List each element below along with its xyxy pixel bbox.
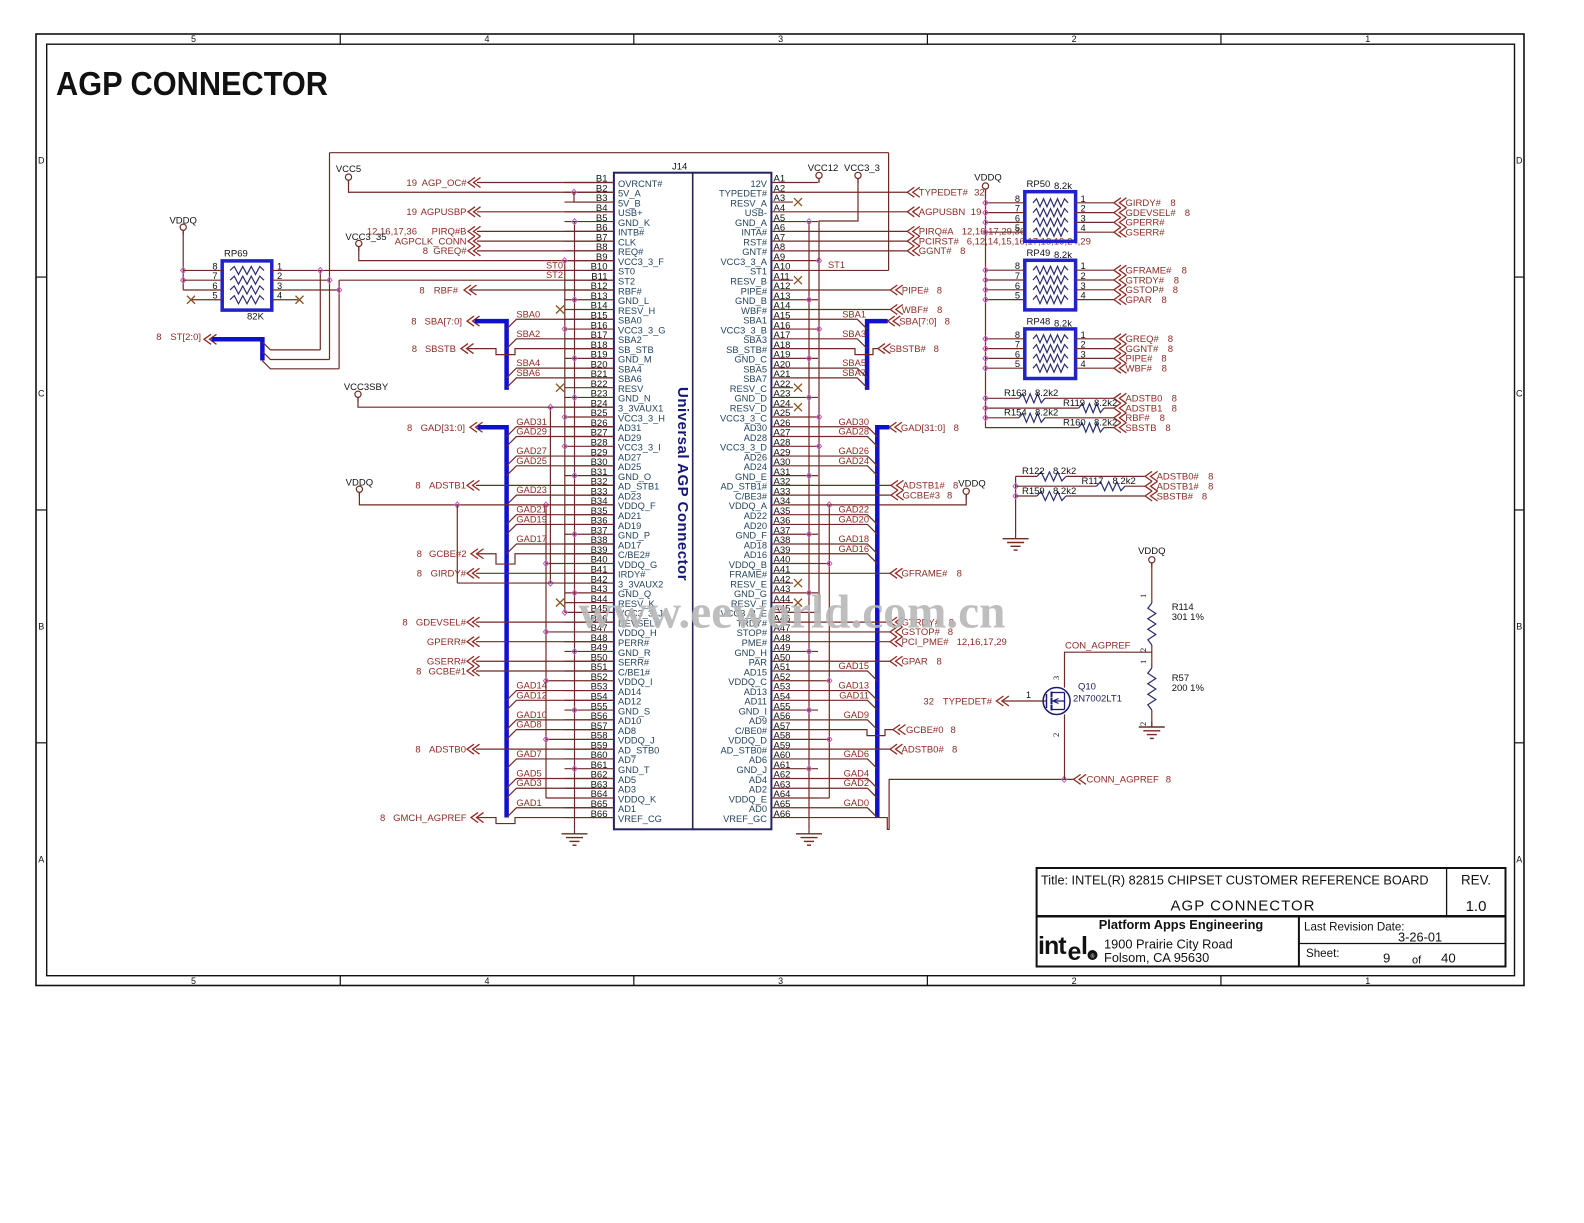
svg-text:4: 4	[485, 976, 490, 986]
wire VDDQ tap B40	[546, 563, 565, 565]
svg-text:1: 1	[1026, 690, 1031, 700]
svg-text:ADSTB0#: ADSTB0#	[902, 744, 945, 755]
svg-text:32: 32	[923, 697, 934, 708]
rail VCC3_3 right	[818, 261, 820, 613]
pin B55 GND_S	[565, 709, 614, 711]
svg-text:C: C	[1516, 389, 1523, 399]
pin B36 AD19	[565, 523, 614, 525]
svg-text:VDDQ: VDDQ	[1138, 546, 1165, 557]
bus entry GAD10	[507, 720, 614, 730]
pin B32 AD_STB1	[565, 484, 614, 486]
svg-text:SBA5: SBA5	[842, 358, 866, 368]
ground	[808, 829, 810, 834]
svg-text:OVRCNT#: OVRCNT#	[618, 179, 663, 189]
bus entry GAD15	[818, 671, 877, 681]
net label WBF# right	[890, 305, 903, 315]
junction VDDQ branch	[455, 502, 460, 508]
bus ST[2:0]	[212, 339, 263, 360]
svg-text:2: 2	[1081, 271, 1086, 281]
pin A18 SB_STB#	[771, 348, 818, 350]
pin B14 RESV_H	[565, 309, 614, 311]
svg-text:SBA[7:0]: SBA[7:0]	[425, 316, 463, 327]
pin A28 VCC3_3_D	[771, 445, 818, 447]
svg-text:RESV_D: RESV_D	[730, 404, 767, 414]
svg-text:SBSTB: SBSTB	[1125, 423, 1156, 434]
svg-text:VDDQ_K: VDDQ_K	[618, 794, 657, 804]
svg-text:GAD3: GAD3	[516, 778, 541, 788]
junction VDDQ A40	[818, 563, 829, 565]
wire VCC12 to A1	[818, 179, 820, 183]
svg-text:GAD18: GAD18	[839, 534, 870, 544]
pin B30 AD25	[565, 465, 614, 467]
bus entry SBA4	[507, 368, 614, 378]
rail VCC3_3 left	[564, 261, 566, 613]
pin B27 AD29	[565, 436, 614, 438]
svg-text:VDDQ_I: VDDQ_I	[618, 677, 653, 687]
title block	[1037, 868, 1506, 967]
junction VCC3_3 A25	[818, 416, 820, 418]
wire AGPUSBP to B4	[477, 211, 614, 213]
power VCC5	[345, 174, 351, 180]
svg-text:AGP_OC#: AGP_OC#	[422, 178, 468, 189]
bus entry GAD21	[507, 515, 614, 525]
wire gate Q10	[1003, 700, 1046, 702]
pin B11 ST2	[565, 279, 614, 281]
svg-text:GCBE#3: GCBE#3	[903, 490, 941, 501]
resistor R154 8.2k2	[986, 417, 1020, 419]
svg-text:8: 8	[407, 423, 412, 434]
svg-text:AD13: AD13	[744, 687, 767, 697]
RP48 resistor 3	[1033, 354, 1068, 362]
bus entry GAD31	[507, 427, 614, 437]
bus entry SBA6	[507, 378, 614, 388]
junction GND B13	[572, 297, 577, 303]
svg-text:8.2k: 8.2k	[1054, 181, 1072, 192]
net label GFRAME# right	[890, 568, 903, 578]
bus entry ST1	[262, 352, 329, 360]
svg-text:VDDQ: VDDQ	[169, 216, 196, 227]
svg-text:WBF#: WBF#	[1126, 364, 1153, 375]
svg-text:SBA7: SBA7	[842, 368, 866, 378]
bus entry GAD14	[507, 691, 614, 701]
svg-text:8.2k2: 8.2k2	[1094, 417, 1117, 428]
pin A24 RESV_D	[771, 406, 793, 408]
svg-text:VCC3_3_F: VCC3_3_F	[618, 257, 664, 267]
RP50 resistor 3	[1033, 218, 1068, 226]
svg-text:GAD12: GAD12	[516, 690, 547, 700]
pin B19 GND_M	[565, 357, 614, 359]
pin A47 STOP#	[771, 631, 818, 633]
pin B52 VDDQ_I	[565, 680, 614, 682]
svg-text:8: 8	[1160, 413, 1165, 424]
svg-text:RESV_C: RESV_C	[730, 384, 767, 394]
svg-text:CLK: CLK	[618, 237, 637, 247]
pin B17 SBA2	[565, 338, 614, 340]
pin A54 AD11	[771, 699, 818, 701]
bus entry GAD22	[818, 515, 877, 525]
pin A7 RST#	[771, 240, 818, 242]
svg-text:CON_AGPREF: CON_AGPREF	[1065, 641, 1131, 652]
svg-text:AD11: AD11	[744, 697, 767, 707]
ground	[1151, 723, 1153, 728]
pin B53 AD14	[565, 690, 614, 692]
svg-text:SBA1: SBA1	[842, 309, 866, 319]
resistor R114 301 1%	[1148, 603, 1156, 645]
wire VCC5 to B2 B3	[349, 180, 614, 192]
svg-text:SBSTB#: SBSTB#	[889, 344, 926, 355]
junction VCC3_35 rail	[562, 258, 567, 264]
bus entry GAD7	[507, 759, 614, 769]
svg-text:8: 8	[937, 305, 942, 316]
svg-text:SBA3: SBA3	[743, 335, 767, 345]
net label ADSTB1#	[1145, 481, 1158, 491]
pin B42 3_3VAUX2	[565, 582, 614, 584]
svg-text:8: 8	[1172, 403, 1177, 414]
svg-text:ST2: ST2	[546, 270, 563, 280]
svg-text:4: 4	[1081, 223, 1086, 233]
pin A5 GND_A	[771, 221, 818, 223]
svg-text:8: 8	[419, 285, 424, 296]
svg-text:AD23: AD23	[618, 491, 641, 501]
svg-text:Platform Apps Engineering: Platform Apps Engineering	[1099, 917, 1263, 932]
svg-text:SBA2: SBA2	[618, 335, 642, 345]
svg-text:GREQ#: GREQ#	[433, 246, 467, 257]
bus entry GAD25	[507, 466, 614, 476]
svg-text:RESV_B: RESV_B	[730, 277, 767, 287]
svg-text:R117: R117	[1082, 476, 1104, 487]
svg-text:8.2k: 8.2k	[1054, 250, 1072, 261]
svg-text:6: 6	[1015, 213, 1020, 223]
svg-text:AD_STB0#: AD_STB0#	[720, 745, 767, 755]
svg-text:REQ#: REQ#	[618, 247, 644, 257]
svg-text:®: ®	[1090, 953, 1095, 960]
junction VCC3 B25	[562, 414, 567, 420]
pin B16 VCC3_3_G	[565, 328, 614, 330]
svg-text:1: 1	[1081, 330, 1086, 340]
pin A50 PAR	[771, 660, 818, 662]
pin A53 AD13	[771, 690, 818, 692]
rail 3_3VAUX left	[549, 407, 551, 583]
svg-text:GAD19: GAD19	[516, 514, 547, 524]
svg-text:8.2k: 8.2k	[1054, 318, 1072, 329]
net label GGNT#	[1114, 344, 1127, 354]
wire ST1 to A10	[818, 269, 889, 271]
junction VDDQ A34	[827, 502, 832, 508]
junction VCC3 B45	[562, 609, 567, 615]
wire RP69.3	[272, 289, 339, 291]
bus entry GAD13	[818, 691, 877, 701]
svg-text:l: l	[1081, 932, 1088, 960]
svg-text:ST1: ST1	[828, 260, 845, 270]
pin A12 PIPE#	[771, 289, 818, 291]
RP50 resistor 4	[1033, 228, 1068, 236]
bus entry SBA2	[507, 339, 614, 349]
svg-text:1: 1	[1365, 976, 1370, 986]
rail VDDQ pullup	[985, 189, 987, 428]
junction VCC3_3 A28	[818, 445, 820, 447]
svg-text:82K: 82K	[247, 312, 265, 323]
svg-text:VCC3_3_A: VCC3_3_A	[720, 257, 767, 267]
net label GSERR#	[1114, 227, 1127, 237]
pin B62 AD5	[565, 777, 614, 779]
pin A44 RESV_F	[771, 602, 793, 604]
pin A32 AD_STB1#	[771, 484, 818, 486]
svg-text:GAD20: GAD20	[839, 514, 870, 524]
svg-text:GAD16: GAD16	[839, 544, 870, 554]
pin A21 SBA7	[771, 377, 818, 379]
svg-text:B: B	[38, 621, 44, 631]
power VDDQ	[356, 486, 362, 492]
svg-text:PAR: PAR	[749, 658, 768, 668]
svg-text:VCC3_3_D: VCC3_3_D	[720, 443, 767, 453]
wire PIRQ#B to B6	[477, 230, 614, 232]
junction GND B23	[572, 394, 577, 400]
svg-text:8: 8	[1182, 266, 1187, 277]
svg-text:C: C	[38, 389, 45, 399]
net label ADSTB1	[1114, 403, 1127, 413]
pin B35 AD21	[565, 514, 614, 516]
svg-text:D: D	[1516, 156, 1523, 166]
wire VDDQ to A34 row	[818, 494, 966, 505]
pin A58 VDDQ_D	[771, 738, 818, 740]
svg-text:R122: R122	[1022, 466, 1045, 477]
pin A43 GND_G	[771, 592, 818, 594]
svg-text:3: 3	[1081, 281, 1086, 291]
svg-text:GAD8: GAD8	[516, 720, 541, 730]
svg-text:VDDQ_J: VDDQ_J	[618, 736, 655, 746]
pin B63 AD3	[565, 787, 614, 789]
pin B39 C/BE2#	[565, 553, 614, 555]
pin B66 VREF_CG	[565, 817, 614, 819]
junction VDDQ B34	[543, 502, 548, 508]
svg-text:D: D	[38, 156, 45, 166]
pin B33 AD23	[565, 494, 614, 496]
svg-text:2: 2	[1051, 733, 1061, 737]
svg-text:3: 3	[778, 976, 783, 986]
pin B7 CLK	[565, 240, 614, 242]
resistor R160 8.2k2	[986, 427, 1079, 429]
svg-text:5: 5	[1015, 291, 1020, 301]
wire GCBE#2 to B39 with dodge	[478, 554, 614, 564]
bus entry GAD20	[818, 524, 877, 534]
bus entry GAD17	[507, 544, 614, 554]
rail GND right	[808, 222, 810, 830]
svg-text:GFRAME#: GFRAME#	[902, 569, 949, 580]
svg-text:9: 9	[1383, 951, 1390, 966]
svg-text:AD8: AD8	[618, 726, 636, 736]
svg-text:IRDY#: IRDY#	[618, 570, 646, 580]
svg-text:8: 8	[953, 481, 958, 492]
svg-text:3: 3	[1081, 213, 1086, 223]
wire PCI_PME# from A48	[818, 641, 890, 643]
wire ST1 top loop	[330, 152, 889, 154]
svg-text:GND_K: GND_K	[618, 218, 651, 228]
svg-text:A: A	[38, 854, 44, 864]
svg-text:RP48: RP48	[1027, 316, 1051, 327]
svg-text:8: 8	[951, 725, 956, 736]
svg-text:AD0: AD0	[749, 804, 767, 814]
svg-text:VDDQ: VDDQ	[958, 479, 985, 490]
svg-text:ST1: ST1	[750, 267, 767, 277]
pin B28 VCC3_3_I	[565, 445, 614, 447]
pin A38 AD18	[771, 543, 818, 545]
svg-text:8: 8	[1202, 491, 1207, 502]
svg-text:8.2k2: 8.2k2	[1094, 398, 1117, 409]
power VDDQ	[180, 224, 186, 230]
svg-text:VDDQ: VDDQ	[346, 478, 373, 489]
svg-text:ADSTB1: ADSTB1	[429, 481, 466, 492]
junction GND A19	[806, 355, 811, 361]
RP48 resistor 4	[1033, 364, 1068, 372]
junction GND B37	[572, 531, 577, 537]
svg-text:C/BE3#: C/BE3#	[735, 491, 768, 501]
svg-text:200 1%: 200 1%	[1172, 683, 1205, 694]
svg-text:Title: INTEL(R) 82815 CHIPSET: Title: INTEL(R) 82815 CHIPSET CUSTOMER R…	[1041, 874, 1429, 888]
svg-text:GAD4: GAD4	[844, 768, 869, 778]
pin B60 AD7	[565, 758, 614, 760]
resistor pack RP48	[1025, 329, 1076, 379]
svg-text:R160: R160	[1063, 417, 1086, 428]
svg-text:6: 6	[212, 281, 217, 291]
pin A2 TYPEDET#	[771, 191, 818, 193]
pin B34 VDDQ_F	[565, 504, 614, 506]
bus entry GAD5	[507, 778, 614, 788]
resistor R119 8.2k2	[986, 407, 1079, 409]
svg-text:GAD11: GAD11	[839, 690, 869, 700]
svg-text:C/BE2#: C/BE2#	[618, 550, 651, 560]
svg-text:8: 8	[1173, 285, 1178, 296]
svg-text:RBF#: RBF#	[618, 286, 643, 296]
pin A52 VDDQ_C	[771, 680, 818, 682]
svg-text:8.2k2: 8.2k2	[1035, 408, 1058, 419]
wire PIPE# from A12	[818, 289, 890, 291]
svg-text:GAD22: GAD22	[839, 505, 870, 515]
junction GND B19	[572, 355, 577, 361]
bus entry SBA5	[818, 368, 867, 378]
wire GPAR from A50	[818, 660, 890, 662]
svg-text:WBF#: WBF#	[741, 306, 768, 316]
svg-text:GND_H: GND_H	[734, 648, 767, 658]
bus entry GAD9	[818, 720, 877, 730]
pin A49 GND_H	[771, 650, 818, 652]
svg-text:VDDQ_A: VDDQ_A	[729, 501, 768, 511]
pin B25 VCC3_3_H	[565, 416, 614, 418]
svg-text:RP69: RP69	[224, 249, 248, 260]
svg-text:7: 7	[212, 271, 217, 281]
svg-text:AD20: AD20	[744, 521, 767, 531]
svg-text:SBA6: SBA6	[516, 368, 540, 378]
svg-text:GND_T: GND_T	[618, 765, 650, 775]
svg-text:8: 8	[952, 744, 957, 755]
svg-text:AD29: AD29	[618, 433, 641, 443]
svg-text:VDDQ_C: VDDQ_C	[728, 677, 767, 687]
pin B1 OVRCNT#	[565, 182, 614, 184]
RP50 resistor 2	[1033, 209, 1068, 217]
svg-text:GND_F: GND_F	[735, 531, 767, 541]
svg-text:AD26: AD26	[744, 452, 767, 462]
wire GTRDY# from A46	[818, 621, 890, 623]
rail VDDQ left	[545, 505, 547, 798]
svg-text:GAD5: GAD5	[516, 768, 541, 778]
svg-text:Folsom, CA 95630: Folsom, CA 95630	[1104, 950, 1209, 965]
svg-text:GAD27: GAD27	[516, 446, 547, 456]
pin A46 TRDY#	[771, 621, 818, 623]
net label GPERR#	[1114, 217, 1127, 227]
wire ST2 seg to B11	[339, 279, 614, 281]
bus entry GAD0	[818, 808, 877, 818]
pin B10 ST0	[565, 269, 614, 271]
svg-text:AGP CONNECTOR: AGP CONNECTOR	[1171, 898, 1316, 915]
svg-text:AD17: AD17	[618, 540, 641, 550]
svg-text:VREF_GC: VREF_GC	[723, 814, 767, 824]
svg-text:5V_A: 5V_A	[618, 189, 642, 199]
net label GSTOP# right	[890, 627, 903, 637]
junction VDDQ A64	[818, 797, 829, 799]
svg-text:AD21: AD21	[618, 511, 641, 521]
resistor R159 8.2k2	[1016, 495, 1037, 497]
svg-text:5: 5	[1015, 359, 1020, 369]
junction AUX B24	[548, 404, 553, 410]
svg-text:8: 8	[960, 246, 965, 257]
wire VCC3SBY to B24	[358, 397, 614, 407]
svg-text:8: 8	[423, 246, 428, 257]
bus entry GAD12	[507, 700, 614, 710]
pin B5 GND_K	[565, 221, 614, 223]
wire PIRQ#A from A6	[818, 230, 907, 232]
power VDDQ	[963, 488, 969, 494]
junction GND A5	[806, 219, 811, 225]
svg-text:AD25: AD25	[618, 462, 641, 472]
svg-text:7: 7	[1015, 271, 1020, 281]
pin B44 RESV_K	[565, 602, 614, 604]
svg-text:7: 7	[1015, 204, 1020, 214]
svg-text:19: 19	[971, 207, 982, 218]
junction GND A61	[806, 766, 811, 772]
bus entry GAD8	[507, 730, 614, 740]
svg-text:AD27: AD27	[618, 452, 641, 462]
svg-text:B: B	[1516, 621, 1522, 631]
svg-text:GPAR: GPAR	[1126, 295, 1152, 306]
wire VDDQ to RP69 inputs	[182, 230, 184, 290]
pin B13 GND_L	[565, 299, 614, 301]
svg-text:RESV_A: RESV_A	[730, 198, 767, 208]
pin A22 RESV_C	[771, 387, 793, 389]
wire GSTOP# from A47	[818, 631, 890, 633]
svg-text:SBA4: SBA4	[516, 358, 540, 368]
svg-text:2: 2	[1072, 976, 1077, 986]
svg-text:VDDQ_E: VDDQ_E	[729, 794, 767, 804]
net label GTRDY# right	[890, 617, 903, 627]
bus entry GAD18	[818, 544, 877, 554]
svg-text:GND_E: GND_E	[735, 472, 767, 482]
connector J14 outline	[614, 173, 772, 830]
svg-text:SB_STB#: SB_STB#	[726, 345, 768, 355]
wire AGPCLK_CONN to B7	[477, 240, 614, 242]
junction GND A55	[806, 707, 811, 713]
svg-text:GCBE#1: GCBE#1	[429, 666, 467, 677]
svg-text:GAD23: GAD23	[516, 485, 547, 495]
RP49 resistor 4	[1033, 296, 1068, 304]
wire ST1 vertical to top loop	[329, 153, 331, 360]
wire VCC3_3 to rail	[819, 179, 858, 261]
junction Q10 source	[1062, 776, 1067, 782]
svg-text:AD24: AD24	[744, 462, 767, 472]
svg-text:AD30: AD30	[744, 423, 767, 433]
svg-text:GAD28: GAD28	[839, 427, 870, 437]
pin A51 AD15	[771, 670, 818, 672]
svg-text:GNT#: GNT#	[742, 247, 768, 257]
net label PIRQ#A	[907, 226, 920, 236]
